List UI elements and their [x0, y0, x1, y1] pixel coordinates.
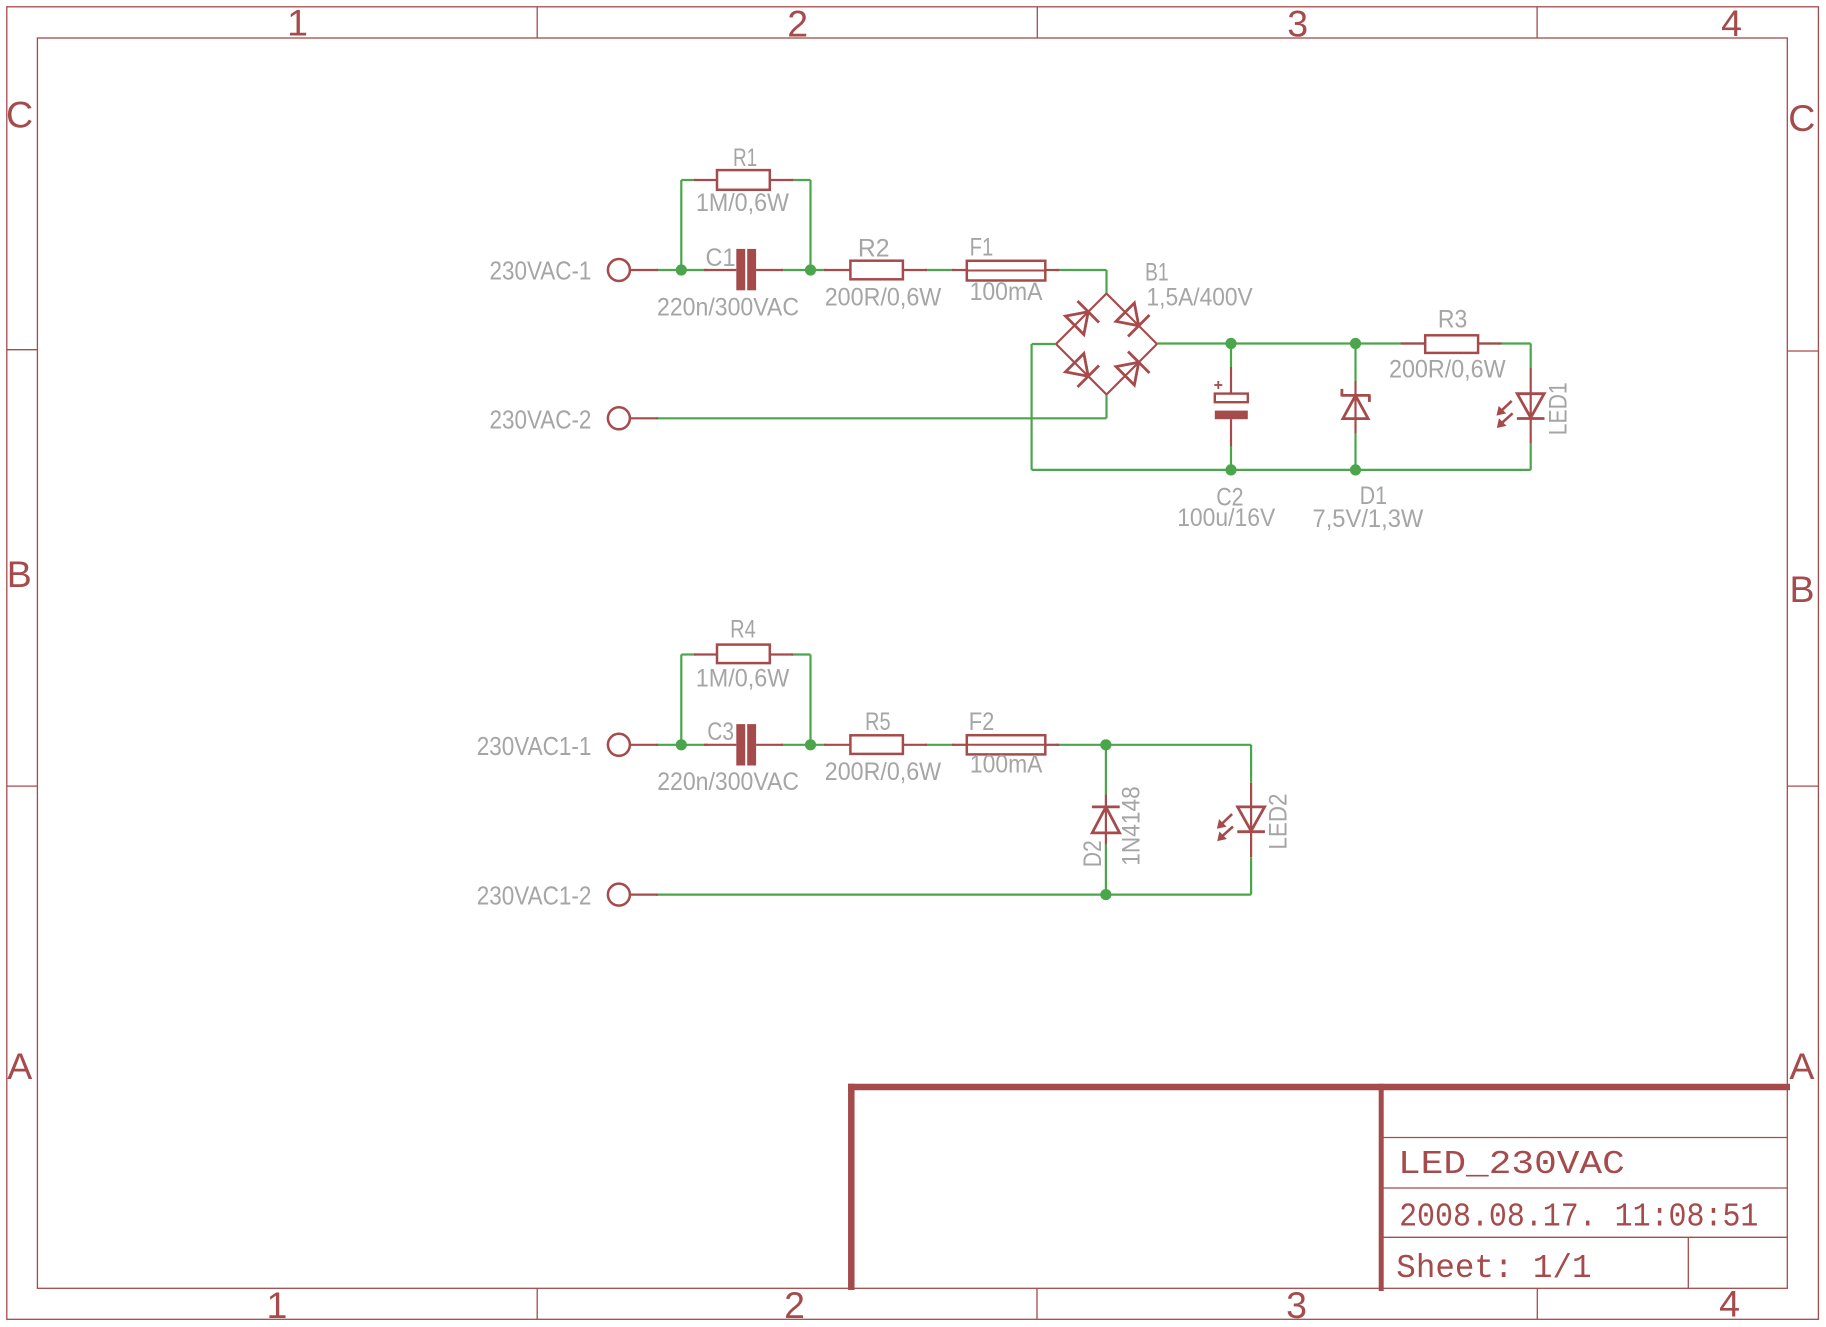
svg-text:R5: R5	[865, 708, 891, 736]
svg-text:LED2: LED2	[1264, 794, 1292, 850]
svg-text:LED1: LED1	[1544, 382, 1572, 435]
wire top rail	[1157, 342, 1531, 344]
svg-text:200R/0,6W: 200R/0,6W	[825, 758, 942, 786]
svg-text:Sheet: 1/1: Sheet: 1/1	[1396, 1249, 1591, 1287]
frame left ticks	[7, 350, 38, 786]
resistor R2	[825, 235, 942, 312]
title block thick middle line	[1379, 1084, 1384, 1291]
wire R1 loop left	[680, 180, 682, 270]
svg-text:D2: D2	[1079, 840, 1107, 867]
svg-text:200R/0,6W: 200R/0,6W	[825, 284, 942, 312]
wire R4 loop left	[680, 655, 682, 745]
resistor R5	[825, 708, 942, 786]
svg-text:R1: R1	[733, 144, 757, 172]
junction dot B1a	[676, 739, 687, 750]
svg-text:230VAC-2: 230VAC-2	[490, 404, 592, 434]
wire R4 loop top left	[681, 653, 696, 655]
svg-text:100mA: 100mA	[970, 751, 1043, 779]
bridge rectifier B1	[1045, 258, 1253, 405]
wire R1 loop top right	[791, 179, 811, 181]
wire R4 loop top right	[791, 653, 811, 655]
title block row line 1	[1381, 1137, 1787, 1139]
node 230VAC1-1 terminal	[477, 731, 630, 761]
svg-text:A: A	[7, 1045, 32, 1087]
zener diode D1	[1313, 344, 1424, 534]
junction dot C2 bottom	[1225, 464, 1236, 475]
capacitor C2	[1177, 344, 1275, 532]
node 230VAC-1 terminal	[490, 255, 630, 285]
wire net3 horizontal	[656, 744, 708, 746]
svg-text:4: 4	[1719, 1283, 1740, 1325]
svg-text:230VAC1-1: 230VAC1-1	[477, 731, 592, 761]
junction dot D2 bottom	[1100, 889, 1111, 900]
svg-text:230VAC1-2: 230VAC1-2	[477, 881, 592, 911]
svg-text:1N4148: 1N4148	[1117, 786, 1145, 866]
frame bottom ticks	[537, 1288, 1537, 1319]
wire net2 horizontal	[656, 417, 1107, 419]
junction dot D1 bottom	[1350, 464, 1361, 475]
junction dot D2 top	[1100, 739, 1111, 750]
svg-text:F2: F2	[969, 708, 995, 736]
svg-text:100u/16V: 100u/16V	[1177, 504, 1275, 532]
pin stubs net1	[631, 269, 1060, 271]
svg-text:2: 2	[784, 1284, 805, 1326]
svg-text:R4: R4	[730, 615, 756, 643]
wire bottom rail	[1032, 469, 1531, 471]
junction dot A1	[676, 264, 687, 275]
svg-text:LED_230VAC: LED_230VAC	[1398, 1145, 1625, 1183]
svg-text:R3: R3	[1438, 305, 1467, 333]
svg-text:230VAC-1: 230VAC-1	[490, 255, 592, 285]
frame top ticks	[537, 7, 1537, 38]
diode D2	[1079, 745, 1145, 895]
wire net4 horizontal	[656, 893, 1251, 895]
svg-text:F1: F1	[970, 234, 994, 262]
wire R1 loop right	[809, 180, 811, 270]
svg-text:1,5A/400V: 1,5A/400V	[1147, 284, 1253, 312]
pin stubs R4	[694, 653, 793, 655]
svg-text:R2: R2	[858, 235, 890, 263]
junction dot D1 top	[1350, 338, 1361, 349]
svg-text:220n/300VAC: 220n/300VAC	[657, 294, 799, 322]
svg-text:1M/0,6W: 1M/0,6W	[696, 665, 790, 693]
junction dot A2	[805, 264, 816, 275]
resistor R4	[696, 615, 790, 692]
wire R4 loop right	[809, 655, 811, 745]
wire net1 down to bridge	[1105, 270, 1107, 294]
title block thick top line	[848, 1084, 1790, 1091]
svg-text:C: C	[6, 93, 33, 135]
pin stubs R3	[1401, 342, 1502, 344]
node 230VAC-2 terminal	[490, 404, 630, 434]
svg-text:C: C	[1788, 97, 1815, 139]
capacitor C3	[657, 718, 799, 796]
pin stubs R1	[694, 179, 793, 181]
wire R1 loop top left	[681, 179, 696, 181]
resistor R1	[696, 144, 789, 217]
svg-text:7,5V/1,3W: 7,5V/1,3W	[1313, 505, 1424, 533]
wire bridge left down	[1030, 344, 1032, 470]
svg-text:220n/300VAC: 220n/300VAC	[657, 768, 799, 796]
svg-text:C3: C3	[707, 718, 734, 746]
svg-text:B: B	[7, 553, 32, 595]
junction dot C2 top	[1225, 338, 1236, 349]
LED2	[1218, 745, 1292, 895]
pin stub net2	[631, 417, 659, 419]
svg-text:3: 3	[1286, 1284, 1307, 1326]
svg-text:100mA: 100mA	[970, 278, 1043, 306]
capacitor C1	[657, 244, 799, 321]
junction dot B1b	[805, 739, 816, 750]
wire net2 up to bridge	[1105, 394, 1107, 418]
svg-text:1M/0,6W: 1M/0,6W	[696, 189, 789, 217]
svg-text:1: 1	[287, 2, 308, 44]
LED1	[1498, 344, 1573, 470]
title block row line 3	[1381, 1236, 1787, 1238]
svg-text:2: 2	[787, 2, 808, 44]
fuse F1	[967, 234, 1046, 306]
svg-text:2008.08.17. 11:08:51: 2008.08.17. 11:08:51	[1399, 1198, 1758, 1236]
title block row line 2	[1381, 1187, 1787, 1189]
svg-text:C1: C1	[706, 244, 736, 272]
svg-text:3: 3	[1287, 2, 1308, 44]
pin stub net4	[631, 893, 659, 895]
wire net1 horizontal	[656, 269, 708, 271]
title block thick left line	[848, 1084, 855, 1290]
svg-text:A: A	[1789, 1045, 1814, 1087]
frame right ticks	[1787, 351, 1818, 786]
svg-text:B: B	[1789, 568, 1814, 610]
node 230VAC1-2 terminal	[477, 881, 630, 911]
svg-text:B1: B1	[1145, 258, 1169, 286]
resistor R3	[1389, 305, 1506, 383]
svg-text:4: 4	[1721, 2, 1742, 44]
svg-text:1: 1	[266, 1284, 287, 1326]
fuse F2	[967, 708, 1046, 778]
svg-text:200R/0,6W: 200R/0,6W	[1389, 355, 1506, 383]
pin stubs net3	[631, 744, 1060, 746]
wire bridge left out	[1032, 343, 1056, 345]
title block sheet divider	[1687, 1237, 1689, 1288]
